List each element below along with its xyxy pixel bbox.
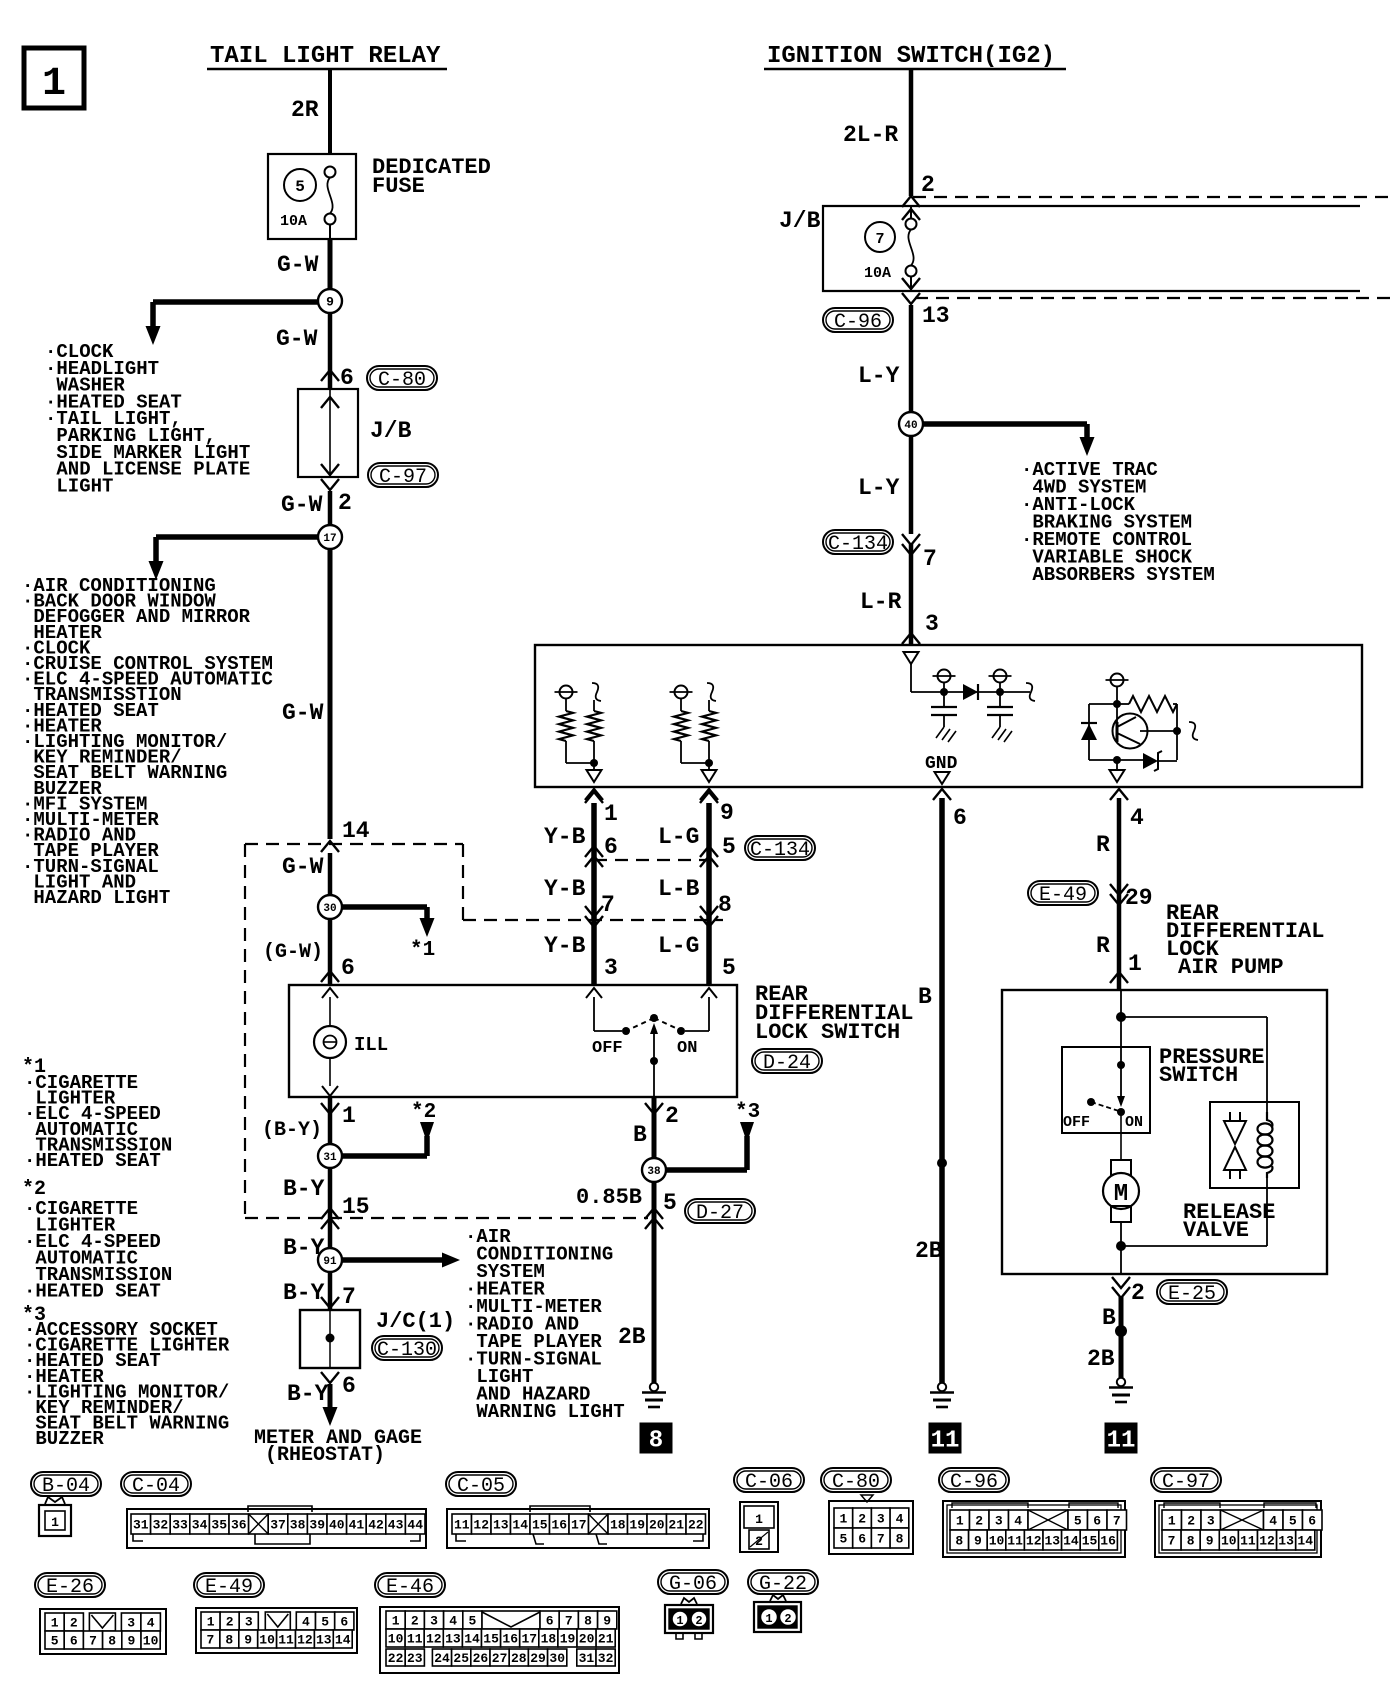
svg-text:12: 12	[426, 1632, 442, 1647]
connector B-04 pinout	[39, 1497, 71, 1536]
svg-text:B: B	[918, 984, 932, 1010]
svg-text:42: 42	[368, 1518, 384, 1533]
connector label E-25	[1157, 1280, 1227, 1306]
connector label C-06	[734, 1468, 804, 1494]
label 2B	[618, 1324, 646, 1350]
svg-text:C-96: C-96	[950, 1471, 998, 1494]
svg-text:13: 13	[493, 1518, 509, 1533]
svg-text:29: 29	[530, 1651, 546, 1666]
label (G-W)	[263, 941, 323, 964]
title TAIL LIGHT RELAY	[207, 43, 447, 70]
connector crossing C-134 on Y-B	[585, 846, 603, 867]
label DEDICATED FUSE	[372, 155, 491, 199]
control unit internal supply diode network	[911, 670, 1035, 702]
label REAR DIFFERENTIAL LOCK AIR PUMP	[1166, 901, 1324, 980]
svg-text:8: 8	[108, 1634, 116, 1649]
svg-text:38: 38	[647, 1166, 661, 1178]
branch wire from node 9 to clock/headlight loads	[146, 302, 331, 345]
svg-text:21: 21	[598, 1632, 614, 1647]
svg-text:1: 1	[676, 1614, 683, 1628]
svg-text:1: 1	[765, 1612, 772, 1626]
svg-text:7: 7	[1113, 1514, 1121, 1529]
svg-text:R: R	[1096, 832, 1110, 858]
svg-text:5: 5	[722, 955, 736, 981]
svg-text:9: 9	[244, 1633, 252, 1648]
connector crossing pin 7	[902, 534, 937, 572]
connector label E-26	[35, 1573, 105, 1599]
label G-W	[282, 854, 324, 880]
svg-text:8: 8	[225, 1633, 233, 1648]
svg-text:5: 5	[468, 1614, 476, 1629]
connector C-97 keying tabs	[1164, 1503, 1316, 1508]
svg-text:14: 14	[512, 1518, 528, 1533]
connector crossing E-49 pin 29	[1110, 884, 1153, 911]
svg-text:13: 13	[1278, 1534, 1294, 1549]
svg-text:36: 36	[231, 1518, 247, 1533]
label 2L-R	[843, 122, 898, 148]
connector label C-05	[446, 1472, 516, 1498]
svg-text:5: 5	[1289, 1514, 1297, 1529]
label Y-B second	[544, 876, 615, 918]
svg-text:91: 91	[323, 1256, 337, 1268]
svg-text:14: 14	[1297, 1534, 1313, 1549]
label B-Y second	[283, 1235, 325, 1261]
svg-text:5: 5	[663, 1190, 677, 1216]
svg-text:23: 23	[407, 1651, 423, 1666]
connector C-80 pinout	[829, 1495, 913, 1554]
svg-text:C-05: C-05	[457, 1475, 505, 1498]
wire B-Y to node 91	[328, 1218, 333, 1260]
svg-text:10: 10	[989, 1534, 1005, 1549]
svg-text:2: 2	[338, 490, 352, 516]
svg-text:4: 4	[147, 1616, 155, 1631]
svg-text:1: 1	[42, 62, 66, 107]
connector crossing pin 5 D-27	[645, 1208, 663, 1229]
svg-text:1: 1	[342, 1103, 356, 1129]
dashed option region outline	[245, 844, 723, 1218]
svg-text:6: 6	[1093, 1514, 1101, 1529]
label G-W	[276, 326, 318, 352]
svg-text:44: 44	[407, 1518, 423, 1533]
svg-text:16: 16	[502, 1632, 518, 1647]
svg-text:M: M	[1114, 1181, 1128, 1208]
label R	[1096, 832, 1110, 858]
svg-text:G-W: G-W	[282, 854, 324, 880]
svg-text:9: 9	[720, 800, 734, 826]
dashed bus continuation upper	[913, 196, 1392, 198]
connector label C-134 ignition	[823, 530, 893, 556]
label Y-B	[544, 824, 618, 860]
svg-text:3: 3	[995, 1514, 1003, 1529]
page number box 1	[24, 48, 84, 108]
svg-text:C-97: C-97	[379, 466, 427, 489]
svg-text:7: 7	[877, 1532, 885, 1547]
svg-text:31: 31	[323, 1152, 337, 1164]
svg-text:C-96: C-96	[834, 311, 882, 334]
svg-text:11: 11	[454, 1518, 470, 1533]
junction block J/B box	[298, 389, 358, 477]
svg-text:D-24: D-24	[763, 1052, 811, 1075]
wire G-W fuse to node 9	[328, 239, 333, 301]
svg-text:7: 7	[923, 546, 937, 572]
connector G-22 pinout	[754, 1595, 801, 1632]
svg-text:E-46: E-46	[386, 1576, 434, 1599]
asterisk note *3 list	[22, 1304, 46, 1327]
svg-text:14: 14	[342, 818, 370, 844]
wire L-Y to node 40	[909, 305, 914, 424]
svg-text:33: 33	[172, 1518, 188, 1533]
filter capacitor 2	[987, 692, 1013, 742]
svg-text:(RHEOSTAT): (RHEOSTAT)	[265, 1444, 385, 1467]
svg-text:1: 1	[755, 1512, 763, 1527]
svg-text:22: 22	[688, 1518, 704, 1533]
label ILL	[354, 1034, 388, 1056]
svg-text:BUZZER: BUZZER	[24, 1428, 104, 1450]
connector C-06 pinout	[740, 1502, 778, 1552]
connector pin 2 into J/B	[902, 172, 935, 207]
svg-text:8: 8	[718, 892, 732, 918]
release valve symbol	[1224, 1112, 1246, 1179]
fuse F7 element 10A	[906, 219, 917, 277]
node 30	[318, 895, 342, 919]
svg-text:G-W: G-W	[276, 326, 318, 352]
branch wire from node 40 to active trac loads	[911, 424, 1095, 456]
svg-text:2: 2	[784, 1612, 791, 1626]
svg-text:ON: ON	[1125, 1114, 1143, 1131]
svg-text:7: 7	[565, 1614, 573, 1629]
svg-text:11: 11	[1240, 1534, 1256, 1549]
svg-text:ON: ON	[677, 1039, 697, 1058]
connector E-49 pinout	[196, 1608, 357, 1653]
svg-text:6: 6	[546, 1614, 554, 1629]
connector label D-27	[685, 1199, 755, 1225]
svg-text:LIGHT: LIGHT	[45, 475, 113, 497]
svg-text:ILL: ILL	[354, 1034, 388, 1056]
label ON	[677, 1039, 697, 1058]
control unit pin 3 entry triangle	[904, 652, 919, 692]
branch wire from node 91 to air conditioning loads	[330, 1253, 460, 1268]
svg-text:E-49: E-49	[205, 1576, 253, 1599]
svg-text:6: 6	[340, 365, 354, 391]
label L-B	[658, 876, 732, 918]
wire 2R from tail light relay	[328, 69, 332, 154]
svg-text:2B: 2B	[915, 1238, 943, 1264]
svg-text:9: 9	[603, 1614, 611, 1629]
svg-text:G-06: G-06	[669, 1573, 717, 1596]
wire motor to air pump exit	[1116, 1178, 1267, 1274]
label 2B air pump	[1087, 1346, 1115, 1372]
svg-text:7: 7	[342, 1284, 356, 1310]
joint connector J/C(1) box	[300, 1310, 360, 1368]
connector crossing pin 15	[321, 1208, 339, 1229]
svg-text:10: 10	[143, 1634, 159, 1649]
svg-text:8: 8	[896, 1532, 904, 1547]
svg-text:IGNITION SWITCH(IG2): IGNITION SWITCH(IG2)	[767, 43, 1055, 70]
control unit pin 1 Y-B	[585, 789, 603, 800]
branch wire from node 31 to *2 loads	[330, 1122, 434, 1156]
svg-text:9: 9	[1206, 1534, 1214, 1549]
svg-text:12: 12	[1259, 1534, 1275, 1549]
svg-text:2: 2	[226, 1615, 234, 1630]
connector label D-24	[752, 1049, 822, 1075]
svg-text:C-134: C-134	[828, 533, 888, 556]
label ON pressure switch	[1125, 1114, 1143, 1131]
connector label G-22	[748, 1570, 818, 1596]
svg-text:D-27: D-27	[696, 1202, 744, 1225]
svg-text:1: 1	[392, 1614, 400, 1629]
svg-text:C-06: C-06	[745, 1471, 793, 1494]
svg-text:L-Y: L-Y	[858, 475, 900, 501]
connector crossing on L-G	[700, 846, 718, 867]
pressure switch contacts	[1087, 1047, 1125, 1116]
svg-text:17: 17	[571, 1518, 587, 1533]
svg-text:38: 38	[290, 1518, 306, 1533]
connector label G-06	[658, 1570, 728, 1596]
label L-G	[658, 824, 736, 860]
svg-text:18: 18	[610, 1518, 626, 1533]
svg-text:14: 14	[335, 1633, 351, 1648]
connector label C-97	[368, 463, 438, 489]
svg-text:11: 11	[407, 1632, 423, 1647]
connector label E-49	[1028, 881, 1098, 907]
svg-text:G-W: G-W	[277, 252, 319, 278]
connector pin 13 below J/B	[902, 293, 950, 329]
pin 1 into air pump	[1110, 972, 1128, 983]
ground reference box 8	[640, 1423, 673, 1455]
svg-text:5: 5	[839, 1532, 847, 1547]
svg-text:OFF: OFF	[592, 1039, 623, 1058]
svg-text:35: 35	[211, 1518, 227, 1533]
svg-text:6: 6	[341, 955, 355, 981]
svg-text:C-80: C-80	[378, 369, 426, 392]
svg-text:11: 11	[1107, 1427, 1136, 1454]
svg-text:15: 15	[1082, 1534, 1098, 1549]
svg-text:6: 6	[1308, 1514, 1316, 1529]
wire (B-Y) switch to node 31	[321, 1097, 356, 1156]
connector label C-134 on switch wires	[745, 836, 815, 862]
svg-text:5: 5	[1074, 1514, 1082, 1529]
label GND and pin triangle	[925, 754, 958, 784]
label G-W	[277, 252, 319, 278]
svg-text:13: 13	[922, 303, 950, 329]
connector C-96 pinout	[943, 1501, 1125, 1557]
filter capacitor 1	[931, 692, 957, 742]
ground wire 2B from control unit	[937, 798, 947, 1383]
svg-text:B: B	[633, 1122, 647, 1148]
svg-text:27: 27	[492, 1651, 508, 1666]
svg-text:2: 2	[1131, 1280, 1145, 1306]
label *2	[411, 1101, 436, 1124]
svg-text:39: 39	[309, 1518, 325, 1533]
svg-text:8: 8	[649, 1427, 663, 1454]
svg-text:G-22: G-22	[759, 1573, 807, 1596]
svg-text:3: 3	[925, 611, 939, 637]
connector C-04 keying tabs	[133, 1506, 420, 1544]
svg-text:7: 7	[89, 1634, 97, 1649]
svg-text:TAIL LIGHT RELAY: TAIL LIGHT RELAY	[210, 43, 441, 70]
label B air pump ground	[1102, 1305, 1116, 1331]
air pump internal feed wire	[1116, 990, 1267, 1117]
label (B-Y)	[262, 1119, 322, 1142]
connector label C-96	[823, 308, 893, 334]
label B-Y third	[283, 1280, 325, 1306]
svg-text:6: 6	[858, 1532, 866, 1547]
wire L-Y node 40 to C-134	[909, 436, 914, 534]
svg-text:B-Y: B-Y	[283, 1280, 325, 1306]
svg-text:30: 30	[549, 1651, 565, 1666]
svg-text:7: 7	[601, 892, 615, 918]
svg-text:4: 4	[1269, 1514, 1277, 1529]
svg-text:30: 30	[323, 903, 336, 915]
svg-text:18: 18	[541, 1632, 557, 1647]
wire B to ground with splice	[1115, 1297, 1127, 1378]
connector label E-46	[375, 1573, 445, 1599]
svg-text:L-G: L-G	[658, 824, 699, 850]
svg-text:WARNING LIGHT: WARNING LIGHT	[465, 1401, 625, 1423]
svg-text:(G-W): (G-W)	[263, 941, 323, 964]
connector C-96 keying tabs	[952, 1503, 1118, 1508]
node 91	[318, 1248, 342, 1272]
svg-text:AIR PUMP: AIR PUMP	[1178, 955, 1284, 980]
svg-text:E-49: E-49	[1039, 884, 1087, 907]
svg-text:L-R: L-R	[860, 589, 902, 615]
pressure switch box	[1062, 1047, 1150, 1133]
svg-text:8: 8	[1187, 1534, 1195, 1549]
label RELEASE VALVE	[1183, 1200, 1275, 1243]
node 40	[899, 412, 923, 436]
wire B-Y node 91 to J/C	[321, 1272, 356, 1310]
load list air conditioning etc	[22, 575, 273, 909]
connector crossing on Y-B second	[585, 906, 603, 927]
svg-text:2: 2	[411, 1614, 419, 1629]
svg-text:15: 15	[342, 1194, 370, 1220]
label J/C(1)	[376, 1309, 455, 1334]
label L-Y second	[858, 475, 900, 501]
svg-text:11: 11	[1007, 1534, 1023, 1549]
svg-text:VALVE: VALVE	[1183, 1218, 1249, 1243]
svg-text:41: 41	[349, 1518, 365, 1533]
branch wire from node 17 to accessory loads	[149, 537, 331, 580]
label B-Y	[283, 1176, 370, 1220]
label 0.85B and pin 5	[576, 1185, 677, 1216]
svg-text:1: 1	[1168, 1514, 1176, 1529]
svg-text:L-G: L-G	[658, 933, 699, 959]
junction block J/B box ignition	[823, 206, 1360, 291]
svg-text:12: 12	[297, 1633, 313, 1648]
svg-text:3: 3	[127, 1616, 135, 1631]
svg-text:R: R	[1096, 933, 1110, 959]
svg-text:1: 1	[1128, 951, 1142, 977]
svg-text:29: 29	[1125, 885, 1153, 911]
connector label C-80	[821, 1468, 891, 1494]
svg-text:1: 1	[956, 1514, 964, 1529]
svg-text:10A: 10A	[864, 265, 891, 282]
label OFF pressure switch	[1063, 1114, 1090, 1131]
svg-text:28: 28	[511, 1651, 527, 1666]
svg-text:3: 3	[604, 955, 618, 981]
label R second and pin 1	[1096, 933, 1142, 977]
wire G-W node 17 down to pin 14	[328, 549, 333, 839]
title IGNITION SWITCH(IG2)	[764, 43, 1066, 70]
connector label C-130	[372, 1336, 442, 1362]
svg-text:11: 11	[931, 1427, 960, 1454]
rear differential lock switch box	[289, 985, 737, 1097]
svg-text:3: 3	[877, 1512, 885, 1527]
wire B-Y to meter and gage	[321, 1372, 356, 1426]
svg-text:C-80: C-80	[832, 1471, 880, 1494]
svg-text:12: 12	[473, 1518, 489, 1533]
sensor resistor pair 2	[670, 683, 717, 782]
svg-text:19: 19	[560, 1632, 576, 1647]
sensor resistor pair 1	[555, 683, 602, 782]
svg-text:2: 2	[1187, 1514, 1195, 1529]
wire G-W node 9 to J/B	[328, 313, 333, 389]
svg-text:SWITCH: SWITCH	[1159, 1063, 1238, 1088]
label J/B	[370, 418, 412, 444]
rear differential lock control unit box	[535, 645, 1362, 787]
node 17	[318, 525, 342, 549]
svg-text:19: 19	[629, 1518, 645, 1533]
svg-text:L-B: L-B	[658, 876, 700, 902]
fuse F5 element 10A	[325, 167, 336, 240]
dashed bus continuation lower	[915, 297, 1392, 299]
label 2R	[291, 97, 319, 123]
svg-text:15: 15	[532, 1518, 548, 1533]
connector label C-96	[939, 1468, 1009, 1494]
svg-text:B-04: B-04	[42, 1475, 90, 1498]
label METER AND GAGE (RHEOSTAT)	[254, 1427, 422, 1467]
svg-text:Y-B: Y-B	[544, 824, 586, 850]
illumination lamp ILL	[314, 988, 346, 1096]
svg-text:11: 11	[278, 1633, 294, 1648]
svg-text:5: 5	[295, 178, 305, 196]
svg-text:3: 3	[1207, 1514, 1215, 1529]
svg-text:3: 3	[430, 1614, 438, 1629]
svg-text:10A: 10A	[280, 213, 307, 230]
svg-text:17: 17	[323, 533, 336, 545]
branch wire from node 30 to *1 loads	[330, 907, 435, 937]
node 38	[642, 1158, 666, 1182]
connector E-46 pinout	[380, 1607, 619, 1673]
svg-text:B-Y: B-Y	[287, 1381, 329, 1407]
svg-text:15: 15	[483, 1632, 499, 1647]
ground symbol 8	[642, 1383, 666, 1407]
ground reference box 11 right	[1105, 1423, 1138, 1455]
svg-text:C-04: C-04	[132, 1475, 180, 1498]
svg-text:26: 26	[473, 1651, 489, 1666]
connector label C-97	[1151, 1468, 1221, 1494]
svg-text:43: 43	[388, 1518, 404, 1533]
svg-text:13: 13	[1044, 1534, 1060, 1549]
asterisk note *1 list	[22, 1056, 46, 1079]
svg-text:31: 31	[579, 1651, 595, 1666]
svg-text:E-26: E-26	[46, 1576, 94, 1599]
svg-text:J/B: J/B	[370, 418, 412, 444]
svg-text:24: 24	[434, 1651, 450, 1666]
svg-text:5: 5	[722, 834, 736, 860]
connector C-05 pinout	[447, 1509, 709, 1548]
wire 2L-R from ignition switch	[909, 69, 914, 196]
label G-W	[282, 700, 324, 726]
svg-text:*3: *3	[735, 1101, 760, 1124]
fuse F7 circle	[864, 222, 895, 282]
svg-text:2: 2	[858, 1512, 866, 1527]
label L-R	[860, 589, 902, 615]
node 31	[318, 1144, 342, 1168]
svg-text:21: 21	[668, 1518, 684, 1533]
svg-text:34: 34	[192, 1518, 208, 1533]
svg-text:4: 4	[1014, 1514, 1022, 1529]
